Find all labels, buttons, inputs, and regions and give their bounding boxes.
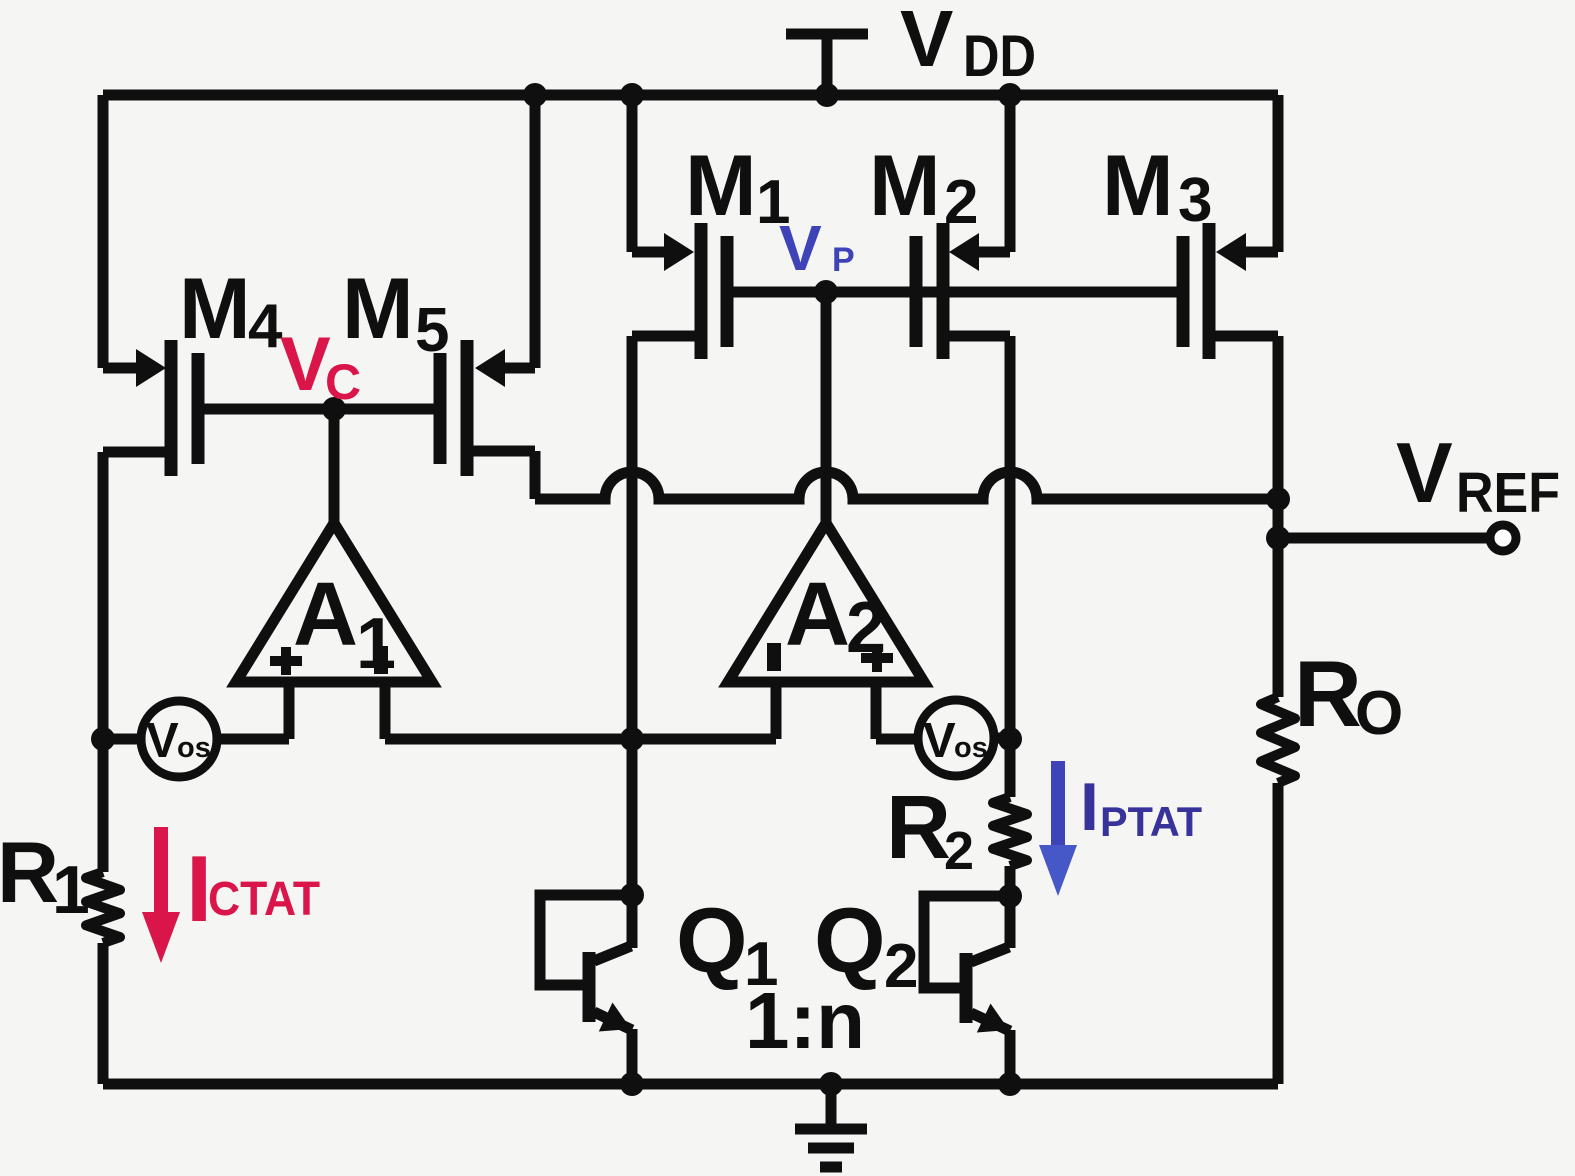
svg-text:REF: REF — [1456, 461, 1560, 525]
op-amp A1 — [236, 523, 432, 739]
transistor M4 — [136, 340, 205, 476]
svg-text:V: V — [779, 212, 822, 284]
wire Q1 emitter to ground rail — [627, 1029, 638, 1084]
node VC junction — [322, 397, 346, 421]
label M3 — [1102, 138, 1212, 235]
svg-text:M: M — [869, 138, 941, 234]
svg-text:I: I — [1080, 769, 1099, 845]
source Vos1 (A1 offset) — [141, 701, 217, 777]
label Q1 — [676, 890, 778, 999]
wire M1 source from rail — [632, 95, 668, 252]
transistor M5 — [434, 340, 506, 476]
wire M4-M5 gate line — [198, 404, 440, 415]
resistor RO — [1261, 697, 1295, 783]
wire Vos2 to M2 drain column — [998, 733, 1010, 744]
wire M5 drain to VREF node with crossover hops — [535, 472, 1278, 499]
svg-text:V: V — [923, 714, 956, 768]
svg-text:2: 2 — [884, 932, 918, 1001]
current arrow IPTAT — [1039, 761, 1077, 896]
wire Q1 base tie — [540, 895, 632, 985]
svg-text:PTAT: PTAT — [1100, 798, 1202, 845]
label VC — [280, 322, 361, 410]
svg-text:5: 5 — [415, 296, 449, 365]
svg-text:os: os — [177, 732, 211, 764]
svg-text:R: R — [0, 825, 59, 921]
wire VP to A2 apex — [821, 292, 832, 528]
node bottom rail junction dots — [620, 1072, 1022, 1096]
wire M4 drain to left column — [103, 452, 171, 872]
svg-text:M: M — [342, 261, 414, 357]
node VREF junction dots — [1266, 487, 1290, 550]
label M2 — [869, 138, 978, 237]
svg-text:DD: DD — [963, 24, 1036, 89]
op-amp A2 — [728, 523, 924, 739]
wire M1 drain to column — [632, 336, 701, 948]
node VDD rail junction dots — [523, 83, 1022, 107]
svg-text:4: 4 — [248, 292, 283, 361]
svg-text:2: 2 — [944, 821, 974, 881]
svg-text:V: V — [900, 0, 953, 83]
label VDD — [900, 0, 1036, 89]
svg-text:A: A — [293, 565, 358, 665]
wire Q2 emitter to ground rail — [1005, 1030, 1016, 1084]
label M5 — [342, 261, 449, 365]
wire Q2 base tie — [924, 896, 1010, 988]
source Vos2 (A2 offset) — [918, 700, 994, 776]
ground symbol — [795, 1084, 867, 1167]
wire VDD top rail — [103, 90, 1278, 101]
svg-text:3: 3 — [1178, 166, 1212, 235]
wire A2 + input to Vos2 — [876, 734, 914, 745]
wire M3 source from rail (right edge) — [1241, 95, 1278, 252]
svg-text:CTAT: CTAT — [208, 873, 320, 926]
svg-text:1: 1 — [52, 852, 90, 928]
wire RO to bottom rail — [1273, 783, 1284, 1084]
label ICTAT — [186, 836, 320, 941]
wire M2 drain down — [943, 336, 1010, 948]
resistor R1 — [86, 872, 120, 943]
label R2 — [886, 778, 974, 881]
svg-text:1:n: 1:n — [745, 976, 865, 1065]
node junction dot M1 drain / amp inputs — [620, 727, 644, 751]
label VREF — [1396, 426, 1560, 525]
wire M5 drain down — [467, 451, 535, 499]
svg-text:M: M — [179, 261, 251, 357]
transistor M1 — [664, 223, 734, 359]
wire R1 to bottom rail — [98, 943, 109, 1084]
wire VREF tap — [1278, 533, 1489, 544]
wire M1-M2-M3 gate line — [727, 287, 1183, 298]
label M1 — [685, 138, 790, 237]
wire ground bottom rail — [103, 1079, 1278, 1090]
svg-text:2: 2 — [944, 168, 978, 237]
transistor M3 — [1177, 223, 1247, 359]
node junction dot Q2 collector-base tie — [998, 884, 1022, 908]
label M4 — [179, 261, 283, 361]
transistor Q1 — [583, 946, 633, 1032]
svg-text:R: R — [1294, 641, 1362, 746]
label 1:n emitter ratio — [745, 976, 865, 1065]
resistor R2 — [993, 797, 1027, 866]
label R1 — [0, 825, 90, 928]
wire M5 source from rail — [499, 95, 535, 368]
label Q2 — [814, 890, 918, 1001]
svg-text:C: C — [325, 354, 361, 410]
svg-text:V: V — [1396, 426, 1453, 521]
node junction dot left column — [91, 727, 115, 751]
svg-text:R: R — [886, 778, 951, 878]
node VP junction — [814, 280, 838, 304]
power VDD symbol — [786, 34, 868, 95]
current arrow ICTAT — [142, 827, 180, 963]
label RO — [1294, 641, 1403, 748]
label VP — [779, 212, 855, 284]
terminal VREF open circle — [1490, 525, 1516, 551]
wire M3 drain down right edge — [1209, 336, 1278, 697]
svg-text:P: P — [832, 241, 855, 279]
wire VC to A1 apex — [329, 409, 340, 528]
node junction dot R2 top — [998, 727, 1022, 751]
wire A1 - input to A2 - input — [385, 734, 776, 745]
svg-text:V: V — [280, 322, 331, 407]
svg-text:M: M — [1102, 138, 1174, 234]
svg-text:O: O — [1355, 679, 1403, 748]
wire M4 source from rail (left edge) — [103, 95, 140, 368]
svg-text:os: os — [954, 732, 988, 764]
node junction dot Q1 collector-base tie — [620, 883, 644, 907]
transistor M2 — [910, 223, 980, 359]
wire left column to Vos1 — [103, 734, 137, 745]
svg-text:Q: Q — [676, 890, 748, 992]
label IPTAT — [1080, 769, 1202, 845]
wire M2 source from rail — [974, 95, 1010, 252]
svg-text:A: A — [785, 565, 850, 665]
svg-text:V: V — [146, 714, 179, 768]
svg-text:M: M — [685, 138, 757, 234]
transistor Q2 — [960, 947, 1011, 1033]
wire Vos1 to A1 + input — [221, 734, 289, 745]
